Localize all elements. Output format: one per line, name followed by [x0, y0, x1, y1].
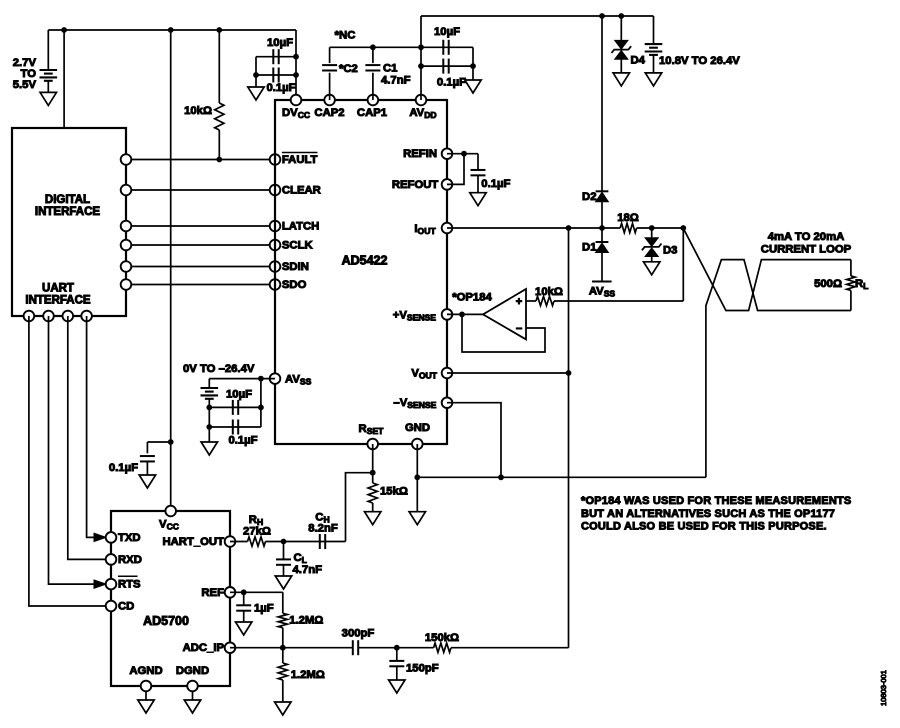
svg-text:AVSS: AVSS [589, 286, 616, 299]
svg-text:150kΩ: 150kΩ [425, 632, 459, 644]
svg-text:+VSENSE: +VSENSE [393, 309, 437, 322]
svg-text:8.2nF: 8.2nF [308, 523, 338, 535]
svg-text:CURRENT LOOP: CURRENT LOOP [761, 244, 852, 256]
svg-text:CD: CD [118, 601, 134, 613]
svg-text:10µF: 10µF [226, 389, 252, 401]
svg-text:SDO: SDO [282, 279, 307, 291]
svg-text:AD5422: AD5422 [342, 254, 388, 268]
svg-text:10kΩ: 10kΩ [535, 286, 563, 298]
svg-text:IOUT: IOUT [414, 223, 436, 236]
svg-text:RSET: RSET [359, 423, 385, 436]
svg-text:0.1µF: 0.1µF [481, 178, 510, 190]
svg-text:BUT AN ALTERNATIVES SUCH AS TH: BUT AN ALTERNATIVES SUCH AS THE OP1177 [581, 508, 835, 520]
svg-text:4.7nF: 4.7nF [381, 75, 411, 87]
svg-text:INTERFACE: INTERFACE [35, 206, 101, 218]
svg-text:SDIN: SDIN [282, 261, 309, 273]
svg-text:AVDD: AVDD [409, 107, 436, 120]
svg-text:1.2MΩ: 1.2MΩ [289, 615, 323, 627]
svg-text:FAULT: FAULT [282, 154, 318, 166]
svg-text:4mA TO 20mA: 4mA TO 20mA [768, 231, 845, 243]
svg-text:REFOUT: REFOUT [392, 179, 439, 191]
svg-text:*C2: *C2 [339, 63, 358, 75]
svg-text:CLEAR: CLEAR [282, 185, 321, 197]
svg-text:TXD: TXD [118, 532, 141, 544]
svg-text:CL: CL [294, 552, 307, 565]
svg-text:DGND: DGND [176, 665, 209, 677]
svg-text:RTS: RTS [118, 579, 141, 591]
svg-text:VCC: VCC [159, 519, 179, 532]
svg-text:D3: D3 [663, 245, 677, 257]
svg-text:RL: RL [855, 278, 868, 291]
svg-text:UART: UART [42, 283, 74, 295]
svg-text:+: + [516, 296, 522, 308]
svg-text:18Ω: 18Ω [617, 212, 639, 224]
svg-text:COULD ALSO BE USED FOR THIS PU: COULD ALSO BE USED FOR THIS PURPOSE. [581, 520, 827, 532]
svg-text:300pF: 300pF [342, 628, 375, 640]
svg-text:0.1µF: 0.1µF [266, 82, 295, 94]
svg-text:10kΩ: 10kΩ [184, 105, 212, 117]
svg-text:REF: REF [201, 587, 224, 599]
svg-text:0V TO –26.4V: 0V TO –26.4V [183, 363, 255, 375]
svg-text:D4: D4 [631, 55, 646, 67]
svg-text:SCLK: SCLK [282, 240, 314, 252]
svg-text:500Ω: 500Ω [814, 278, 842, 290]
svg-text:HART_OUT: HART_OUT [162, 536, 224, 548]
svg-text:1.2MΩ: 1.2MΩ [291, 669, 325, 681]
svg-text:27kΩ: 27kΩ [243, 526, 271, 538]
svg-text:0.1µF: 0.1µF [228, 434, 257, 446]
svg-text:AVSS: AVSS [285, 374, 312, 387]
svg-text:C1: C1 [383, 63, 397, 75]
svg-text:–: – [516, 323, 522, 335]
svg-text:*NC: *NC [335, 30, 356, 42]
svg-text:GND: GND [405, 422, 430, 434]
svg-text:10µF: 10µF [434, 26, 460, 38]
svg-text:10803-001: 10803-001 [879, 670, 888, 706]
svg-text:D2: D2 [582, 191, 596, 203]
svg-text:15kΩ: 15kΩ [380, 486, 408, 498]
svg-text:–VSENSE: –VSENSE [393, 397, 436, 410]
svg-text:REFIN: REFIN [403, 148, 437, 160]
svg-text:4.7nF: 4.7nF [293, 564, 323, 576]
svg-text:150pF: 150pF [406, 663, 439, 675]
svg-text:RXD: RXD [118, 554, 142, 566]
svg-text:AD5700: AD5700 [143, 614, 189, 628]
svg-text:LATCH: LATCH [282, 221, 319, 233]
svg-text:ADC_IP: ADC_IP [183, 642, 225, 654]
svg-text:1µF: 1µF [254, 603, 274, 615]
svg-text:5.5V: 5.5V [13, 79, 37, 91]
svg-text:VOUT: VOUT [411, 368, 437, 381]
svg-text:10.8V TO 26.4V: 10.8V TO 26.4V [659, 55, 740, 67]
svg-text:10µF: 10µF [267, 37, 293, 49]
svg-text:INTERFACE: INTERFACE [25, 295, 91, 307]
svg-text:D1: D1 [582, 242, 596, 254]
svg-text:DIGITAL: DIGITAL [45, 194, 90, 206]
svg-text:AGND: AGND [129, 665, 162, 677]
svg-text:*OP184 WAS USED FOR THESE MEAS: *OP184 WAS USED FOR THESE MEASUREMENTS [581, 495, 851, 507]
svg-text:0.1µF: 0.1µF [109, 462, 138, 474]
svg-text:*OP184: *OP184 [452, 292, 492, 304]
svg-text:DVCC: DVCC [282, 107, 310, 120]
svg-text:CAP1: CAP1 [357, 107, 387, 119]
svg-text:0.1µF: 0.1µF [437, 76, 466, 88]
svg-text:CAP2: CAP2 [314, 107, 344, 119]
